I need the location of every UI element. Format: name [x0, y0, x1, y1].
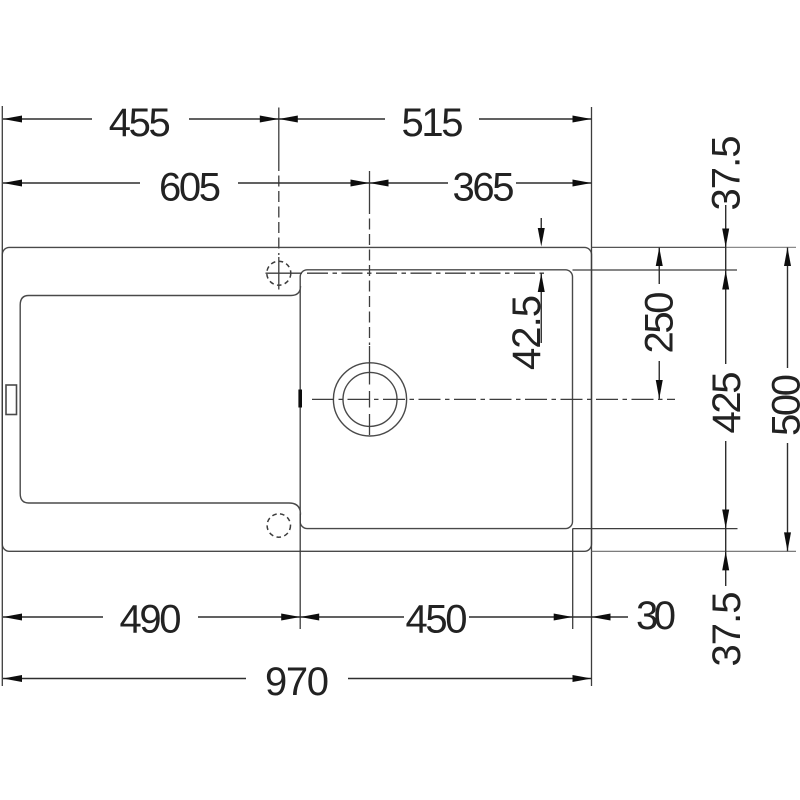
svg-text:515: 515: [402, 101, 464, 145]
svg-text:250: 250: [638, 292, 682, 354]
svg-text:425: 425: [705, 372, 749, 434]
svg-text:30: 30: [636, 594, 676, 638]
svg-text:37.5: 37.5: [705, 592, 749, 667]
svg-text:37.5: 37.5: [705, 136, 749, 211]
svg-text:450: 450: [406, 598, 468, 642]
svg-text:42.5: 42.5: [505, 295, 549, 370]
svg-text:455: 455: [109, 101, 171, 145]
svg-text:490: 490: [120, 598, 182, 642]
svg-text:365: 365: [453, 166, 515, 210]
svg-text:970: 970: [265, 660, 329, 704]
svg-text:605: 605: [159, 166, 221, 210]
svg-text:500: 500: [765, 374, 800, 436]
